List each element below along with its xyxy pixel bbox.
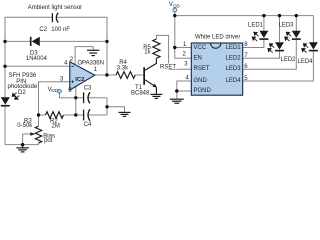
svg-text:LED2: LED2 [226,55,242,61]
svg-text:EN: EN [194,55,202,61]
svg-text:RSET: RSET [160,65,176,71]
svg-text:LED1: LED1 [248,23,264,29]
svg-text:SFH P936: SFH P936 [9,73,37,79]
svg-text:3.3k: 3.3k [117,65,129,71]
svg-text:pot: pot [44,138,53,144]
svg-text:LED4: LED4 [298,59,314,65]
svg-text:LED4: LED4 [226,78,242,84]
svg-text:BC848: BC848 [131,90,150,96]
svg-text:C2: C2 [39,27,47,33]
svg-text:100 nF: 100 nF [51,27,70,33]
svg-text:LED3: LED3 [279,23,295,29]
svg-text:2M: 2M [52,123,60,129]
svg-text:VCC: VCC [194,45,207,51]
svg-text:Ambient light sensor: Ambient light sensor [28,5,82,11]
svg-text:OPA336N: OPA336N [77,61,104,67]
svg-text:LED1: LED1 [226,45,242,51]
svg-text:DD: DD [173,4,180,9]
svg-text:C3: C3 [84,86,92,92]
svg-text:1k: 1k [144,49,151,55]
svg-text:RSET: RSET [194,66,210,72]
svg-text:LED2: LED2 [281,57,297,63]
svg-text:D2: D2 [18,90,26,96]
svg-text:IC2: IC2 [75,77,84,83]
svg-text:White LED driver: White LED driver [195,34,240,40]
svg-text:LED3: LED3 [226,66,242,72]
svg-text:1N4004: 1N4004 [26,56,48,62]
svg-text:GND: GND [194,78,208,84]
svg-text:PGND: PGND [194,88,212,94]
svg-text:0-50k: 0-50k [17,123,33,129]
svg-text:DD: DD [51,88,58,93]
svg-text:C4: C4 [84,122,92,128]
